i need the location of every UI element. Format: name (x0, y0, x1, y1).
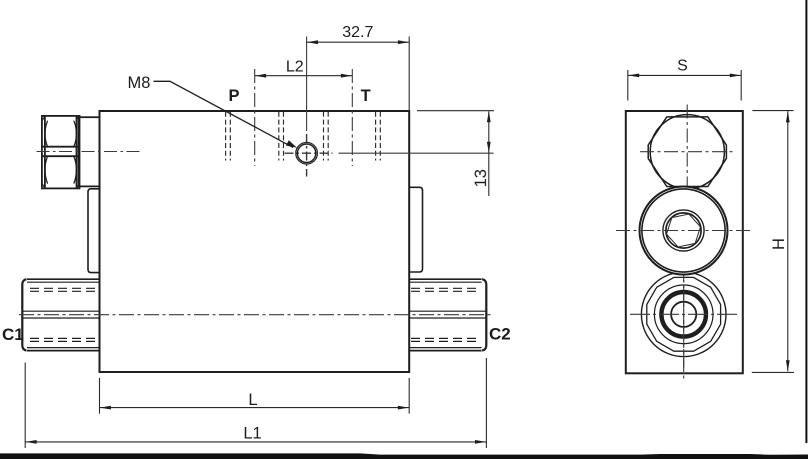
vertical centerline (upper, through hex) (686, 105, 688, 191)
svg-text:L: L (248, 391, 257, 409)
middle crosshair (616, 230, 751, 232)
vertical centerline (lower, through circles) (683, 190, 685, 382)
dimension S (628, 70, 741, 101)
hex plug (top, end view) (648, 115, 726, 189)
M8 leader arrowhead (286, 140, 297, 148)
svg-text:P: P (228, 87, 239, 105)
valve body outline (100, 111, 410, 372)
svg-text:S: S (677, 58, 688, 75)
C2 threaded rod (right) (409, 279, 486, 350)
dimension L (100, 378, 410, 414)
hex/12-gon outline (647, 277, 721, 351)
svg-text:32.7: 32.7 (342, 24, 373, 41)
washer / flange between nut and body (79, 117, 100, 186)
hex nut (side view, left) (42, 116, 80, 188)
inner circle (671, 302, 696, 327)
bottom crosshair (630, 313, 739, 315)
M8 leader line (154, 81, 294, 147)
main horizontal centerline (19, 314, 492, 316)
outer circle (641, 272, 726, 357)
middle port boss (white fill overlaps) (640, 187, 728, 275)
circle (654, 285, 713, 344)
svg-text:L2: L2 (286, 59, 304, 76)
port T hidden thread lines (324, 112, 381, 161)
svg-text:T: T (361, 87, 371, 105)
M8 hole horizontal centerline (285, 152, 333, 154)
svg-text:C2: C2 (489, 325, 511, 344)
port P hidden thread lines (226, 112, 284, 161)
page frame: right border (805, 0, 807, 443)
svg-text:H: H (770, 238, 788, 250)
dimension 32.7 (307, 37, 410, 111)
dimension 13 (417, 110, 494, 112)
port P centerline (254, 69, 256, 166)
M8 tapped hole (296, 142, 318, 164)
svg-text:M8: M8 (128, 74, 151, 92)
bottom cartridge (drawn before middle so middle overlaps) (641, 272, 726, 357)
M8 hole vertical extension / centerline (306, 37, 308, 132)
nut centerline (37, 151, 141, 153)
dimension H (752, 111, 794, 373)
C1 threaded rod (left) (22, 279, 99, 350)
thick ring (661, 292, 706, 337)
dimension L1 (25, 358, 486, 448)
hex horizontal centerline (640, 151, 735, 153)
svg-text:L1: L1 (243, 424, 261, 442)
side view body outline (626, 111, 743, 373)
reference line to 13 dimension (339, 152, 494, 154)
svg-text:13: 13 (472, 169, 490, 187)
svg-text:C1: C1 (2, 325, 24, 344)
dimension L2 (255, 75, 353, 77)
left side plate (88, 189, 100, 273)
right side plate (409, 187, 422, 272)
page frame: bottom bar (0, 453, 808, 459)
port T centerline (351, 69, 353, 166)
